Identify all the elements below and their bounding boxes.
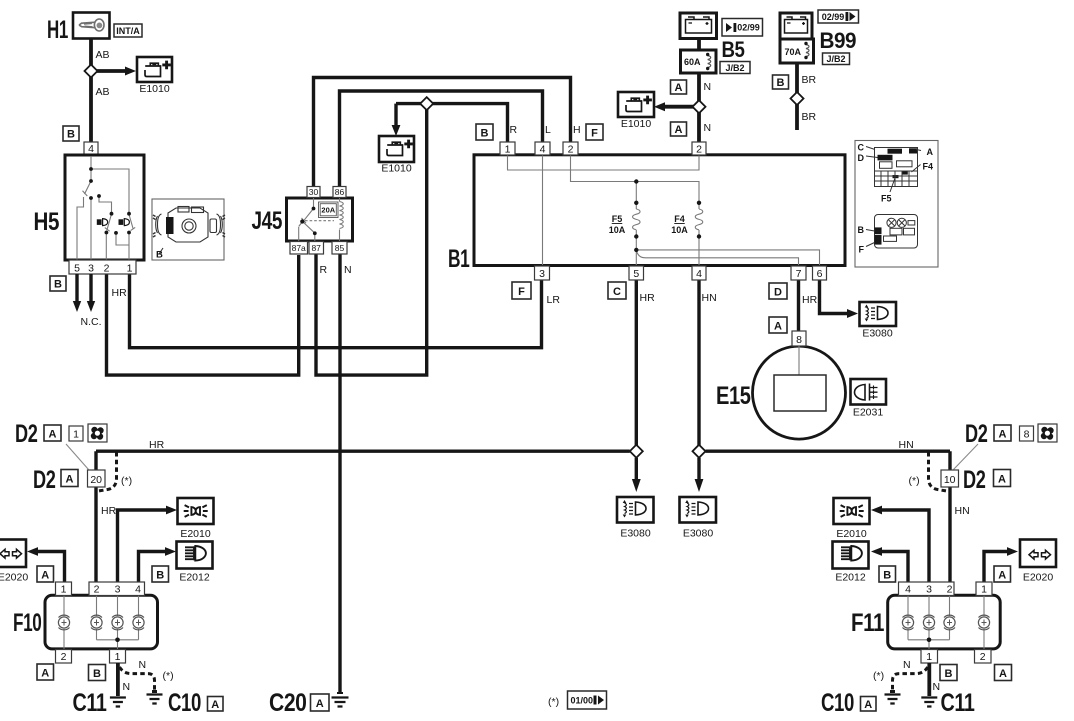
earth point E1010 box (center) xyxy=(379,136,414,162)
svg-text:INT/A: INT/A xyxy=(116,26,140,36)
svg-text:(*): (*) xyxy=(163,670,174,682)
connector label A xyxy=(671,122,687,136)
fog light switch E15 xyxy=(753,346,846,439)
svg-text:HR: HR xyxy=(112,287,128,299)
svg-text:87a: 87a xyxy=(292,243,306,253)
wire F11 pin3 arrow to E2010 xyxy=(881,510,929,582)
svg-text:D2: D2 xyxy=(965,420,988,448)
svg-text:B: B xyxy=(156,569,164,581)
wire J45 pin87 R to diamond node to B1 pin1 xyxy=(316,104,508,376)
wire J45 pin86 L to B1 pin4 xyxy=(340,91,543,187)
svg-text:HR: HR xyxy=(101,505,117,517)
connector label B xyxy=(152,566,169,582)
wire HN bus right xyxy=(706,450,951,453)
svg-text:E3080: E3080 xyxy=(683,528,714,540)
node diamond on AB wire xyxy=(85,65,98,78)
wire AB from H1 to H5 pin 4 xyxy=(89,36,93,143)
B5 fuse 60A xyxy=(681,50,717,73)
connector label F xyxy=(586,124,603,140)
B1 pin 1 xyxy=(500,142,515,155)
svg-text:E2020: E2020 xyxy=(0,572,28,584)
svg-text:20A: 20A xyxy=(321,206,335,215)
svg-text:N.C.: N.C. xyxy=(81,316,102,328)
svg-text:2: 2 xyxy=(61,651,67,663)
svg-text:BR: BR xyxy=(802,111,817,123)
wire F10 pin4 arrow to E2012 xyxy=(139,552,167,583)
svg-text:A: A xyxy=(675,124,683,136)
dashed optional wire (*) xyxy=(99,452,117,491)
svg-text:E2031: E2031 xyxy=(853,407,884,419)
svg-text:A: A xyxy=(211,699,219,711)
svg-text:E2020: E2020 xyxy=(1023,572,1054,584)
N.C. arrow pin 3 xyxy=(89,274,92,302)
svg-text:A: A xyxy=(49,428,57,440)
svg-text:3: 3 xyxy=(926,584,932,596)
F10 pin 2 bottom xyxy=(56,650,72,664)
fan symbol box xyxy=(88,424,107,442)
connector label B xyxy=(50,276,66,291)
connector label D xyxy=(769,283,787,299)
wire F11 pin4 arrow to E2012 xyxy=(881,552,908,583)
svg-text:B: B xyxy=(945,668,953,680)
svg-text:C11: C11 xyxy=(941,689,975,717)
svg-text:C: C xyxy=(858,143,865,153)
F11 pins 4 3 2 top xyxy=(899,582,955,596)
svg-text:B: B xyxy=(156,250,163,261)
connector label A xyxy=(208,697,224,712)
wire HR bus drop to F10 pin2 xyxy=(94,451,97,582)
svg-text:AB: AB xyxy=(96,49,110,61)
svg-text:A: A xyxy=(864,699,872,711)
svg-text:J/B2: J/B2 xyxy=(725,63,744,73)
fuse box B1 xyxy=(474,155,845,266)
front fog lamp icon E2010 right xyxy=(834,498,870,524)
svg-text:N: N xyxy=(933,681,941,693)
svg-text:(*): (*) xyxy=(548,696,559,708)
svg-text:F5: F5 xyxy=(881,194,892,204)
wire arrow to E1010 (right) xyxy=(664,105,699,109)
fan symbol box xyxy=(1038,424,1057,442)
svg-text:(*): (*) xyxy=(873,670,884,682)
svg-text:(*): (*) xyxy=(909,475,920,487)
wire B5 N to B1 pin2 right xyxy=(697,72,701,143)
svg-text:HN: HN xyxy=(899,439,914,451)
svg-text:N: N xyxy=(704,122,712,134)
svg-text:(*): (*) xyxy=(121,475,132,487)
svg-text:5: 5 xyxy=(633,268,639,280)
F10 internal lamps xyxy=(64,596,139,650)
H5 internal contacts xyxy=(77,156,135,260)
connector label A xyxy=(769,317,787,333)
svg-text:02/99: 02/99 xyxy=(737,23,760,33)
svg-text:J45: J45 xyxy=(252,207,283,235)
svg-text:1: 1 xyxy=(981,584,987,596)
battery B5 xyxy=(680,13,717,39)
connector label A xyxy=(994,566,1011,582)
svg-text:2: 2 xyxy=(947,584,953,596)
N.C. arrow pin 5 xyxy=(75,274,78,302)
H5 connector location inset xyxy=(152,199,224,260)
svg-text:A: A xyxy=(927,147,934,157)
svg-text:H1: H1 xyxy=(47,16,68,44)
svg-text:B: B xyxy=(481,127,489,139)
svg-text:F4: F4 xyxy=(674,214,685,224)
ground C10 left xyxy=(152,690,157,693)
junction diamond HR bus xyxy=(630,445,643,458)
svg-text:E2012: E2012 xyxy=(835,572,866,584)
B99 location label J/B2 xyxy=(823,53,850,65)
connector label C xyxy=(608,282,626,299)
svg-text:3: 3 xyxy=(539,268,545,280)
wire N to ground C11 xyxy=(116,663,120,696)
svg-text:7: 7 xyxy=(796,268,802,280)
svg-text:A: A xyxy=(998,473,1006,485)
svg-text:4: 4 xyxy=(88,143,94,155)
F10 pin 1 bottom xyxy=(110,650,126,664)
wire HR bus left xyxy=(96,450,630,453)
node diamond on BR wire xyxy=(791,92,804,105)
svg-text:C10: C10 xyxy=(821,689,854,717)
svg-text:D2: D2 xyxy=(15,420,38,448)
connector label A xyxy=(37,566,54,582)
wire B5 battery to fuse xyxy=(697,36,701,52)
svg-text:30: 30 xyxy=(309,187,319,197)
H1 key symbol box xyxy=(73,13,110,39)
svg-text:B1: B1 xyxy=(448,245,470,273)
svg-text:HR: HR xyxy=(640,292,656,304)
wire B1 pin4 HN down to E3080 right xyxy=(697,279,700,446)
svg-text:B: B xyxy=(858,225,865,235)
svg-text:E15: E15 xyxy=(716,382,751,410)
svg-text:B: B xyxy=(67,129,75,141)
svg-text:C11: C11 xyxy=(73,689,107,717)
connector label A xyxy=(61,470,78,487)
connector label A xyxy=(995,665,1012,681)
ground C10 right xyxy=(890,690,895,693)
wire HN bus drop to F11 pin2 xyxy=(948,451,951,582)
svg-text:F4: F4 xyxy=(923,162,934,172)
svg-text:E1010: E1010 xyxy=(139,83,170,95)
wire arrow down to E1010 (center) xyxy=(394,104,397,126)
svg-text:6: 6 xyxy=(817,268,823,280)
connector label B xyxy=(63,126,79,141)
svg-text:HR: HR xyxy=(802,294,818,306)
connector label B xyxy=(476,124,493,140)
svg-text:H5: H5 xyxy=(34,208,60,236)
svg-text:F: F xyxy=(518,286,525,298)
B1 pin 2 right xyxy=(692,142,706,155)
svg-text:E2010: E2010 xyxy=(180,528,211,540)
svg-text:5: 5 xyxy=(74,262,80,274)
svg-text:A: A xyxy=(675,82,683,94)
ground C11 right xyxy=(921,698,937,707)
B1 internal connections xyxy=(508,155,820,265)
pin 10 box xyxy=(941,470,959,487)
dashed optional wire to C10 right xyxy=(893,667,928,692)
lamp cluster F10 xyxy=(45,595,158,649)
connector label A xyxy=(994,425,1011,441)
svg-text:4: 4 xyxy=(905,584,911,596)
junction diamond HN bus xyxy=(693,445,706,458)
svg-text:B: B xyxy=(777,77,785,89)
svg-text:E3080: E3080 xyxy=(862,328,893,340)
svg-text:A: A xyxy=(41,569,49,581)
pin 4 of H5 xyxy=(84,142,98,155)
svg-text:D2: D2 xyxy=(33,466,56,494)
B99 fuse 70A xyxy=(780,39,814,63)
earth point E1010 box (left) xyxy=(137,57,172,82)
wire B1 pin7 HR to E15 pin8 xyxy=(797,279,800,332)
wire B1 pin5 HR down to E3080 left xyxy=(635,279,638,446)
headlamp unit E3080 box top right xyxy=(860,302,897,326)
turn signals icon E2020 right xyxy=(1020,540,1056,568)
svg-text:4: 4 xyxy=(135,584,141,596)
INT/A label box xyxy=(114,24,142,37)
B99 date label box xyxy=(818,10,859,23)
wire N to ground C11 right xyxy=(927,663,931,696)
battery B99 xyxy=(780,13,812,39)
svg-text:E3080: E3080 xyxy=(620,528,651,540)
B1 pin 6 xyxy=(813,266,827,280)
svg-text:2: 2 xyxy=(568,143,574,155)
low beam icon E2012 right xyxy=(833,542,869,569)
svg-text:A: A xyxy=(66,473,74,485)
svg-text:2: 2 xyxy=(104,262,110,274)
svg-text:85: 85 xyxy=(335,243,345,253)
ground C11 left xyxy=(110,698,126,707)
connector label A xyxy=(861,697,877,712)
svg-text:2: 2 xyxy=(980,651,986,663)
connector label B xyxy=(773,75,789,89)
svg-text:C: C xyxy=(613,286,621,298)
F10 pins 2 3 4 top xyxy=(89,582,145,596)
B1 pin 7 xyxy=(791,266,806,280)
svg-text:A: A xyxy=(999,668,1007,680)
B1 pin 3 xyxy=(535,266,550,280)
svg-text:70A: 70A xyxy=(785,47,802,57)
H5 bottom pin row 5 3 2 1 xyxy=(69,260,136,274)
light switch H5 box xyxy=(65,155,144,260)
svg-text:20: 20 xyxy=(90,474,102,486)
svg-text:B5: B5 xyxy=(722,37,745,62)
svg-text:1: 1 xyxy=(73,429,79,441)
svg-text:B: B xyxy=(93,668,101,680)
H5 lamp symbol 1 xyxy=(97,219,108,226)
svg-text:HR: HR xyxy=(149,439,165,451)
svg-text:3: 3 xyxy=(115,584,121,596)
svg-text:E1010: E1010 xyxy=(381,163,412,175)
svg-text:B: B xyxy=(54,279,62,291)
F11 pin 2 bottom xyxy=(975,650,992,664)
connector label B xyxy=(879,566,896,582)
wire J45 pin30 H to B1 pin2 xyxy=(314,78,571,188)
svg-text:D: D xyxy=(774,287,782,299)
svg-text:D2: D2 xyxy=(963,466,986,494)
leader line xyxy=(66,444,89,470)
svg-text:F10: F10 xyxy=(13,609,42,637)
svg-text:A: A xyxy=(774,321,782,333)
pin 20 box xyxy=(88,470,106,487)
svg-text:3: 3 xyxy=(88,262,94,274)
H5 lamp symbol 2 xyxy=(119,219,130,226)
svg-text:BR: BR xyxy=(802,74,817,86)
svg-text:E2010: E2010 xyxy=(836,528,867,540)
ground C20 xyxy=(337,692,343,694)
F11 internal lamps xyxy=(908,596,984,650)
wire B1 pin6 arrow to E3080 top xyxy=(820,279,849,314)
svg-text:10A: 10A xyxy=(609,225,626,235)
svg-text:HN: HN xyxy=(702,292,717,304)
svg-text:02/99: 02/99 xyxy=(822,12,845,22)
svg-text:A: A xyxy=(41,667,49,679)
dashed optional wire to C10 xyxy=(120,667,155,692)
wire H5 pin2 HR to J45 pin 87a xyxy=(107,255,299,375)
headlamp unit E3080 box bottom left xyxy=(617,497,654,523)
svg-text:F5: F5 xyxy=(612,214,623,224)
earth point E1010 box (center right) xyxy=(618,92,654,117)
svg-text:J/B2: J/B2 xyxy=(826,54,845,64)
B1 pin 2 xyxy=(563,142,578,155)
svg-text:10A: 10A xyxy=(671,225,688,235)
svg-text:F11: F11 xyxy=(851,609,884,637)
pin label 8 xyxy=(1020,426,1034,441)
connector label A xyxy=(37,664,54,680)
svg-text:1: 1 xyxy=(127,262,133,274)
pin label 1 xyxy=(69,426,83,441)
svg-text:86: 86 xyxy=(335,187,345,197)
svg-text:R: R xyxy=(510,124,518,136)
svg-text:N: N xyxy=(704,81,712,93)
svg-text:N: N xyxy=(139,659,147,671)
F10 pin 1 top xyxy=(56,582,72,596)
J45 coil and contacts xyxy=(299,198,344,241)
svg-text:B99: B99 xyxy=(820,28,857,53)
B5 location label J/B2 xyxy=(720,62,750,74)
svg-text:2: 2 xyxy=(94,584,100,596)
F11 pin 1 top xyxy=(976,582,992,596)
J45 pin 85 xyxy=(332,242,347,255)
svg-text:1: 1 xyxy=(505,143,511,155)
front fog lamp icon E2010 xyxy=(178,498,214,524)
connector label A xyxy=(994,470,1011,487)
svg-text:A: A xyxy=(998,569,1006,581)
node diamond on R wire xyxy=(420,97,433,110)
turn signals icon E2020 xyxy=(0,540,26,568)
connector label F xyxy=(512,282,531,299)
B5 date label box xyxy=(722,19,763,37)
svg-text:C20: C20 xyxy=(269,689,307,717)
svg-text:HN: HN xyxy=(955,505,970,517)
J45 fuse rating 20A box xyxy=(319,202,339,218)
connector label B xyxy=(89,665,106,681)
svg-text:C10: C10 xyxy=(168,689,201,717)
svg-text:N: N xyxy=(903,659,911,671)
F11 pin 1 bottom xyxy=(921,650,938,664)
wire J45 pin85 N to C20 ground xyxy=(338,253,341,694)
svg-text:E2012: E2012 xyxy=(179,572,210,584)
wire F11 pin1 arrow to E2020 xyxy=(984,552,1008,583)
svg-text:LR: LR xyxy=(547,294,561,306)
wire F10 pin1 arrow to E2020 xyxy=(37,552,65,583)
B1 pin 5 xyxy=(629,266,644,280)
connector label A xyxy=(44,425,61,441)
connector label B xyxy=(940,665,957,681)
dashed optional wire (*) xyxy=(929,452,947,491)
E15 internal lead xyxy=(798,346,800,376)
leader line xyxy=(954,444,979,470)
J45 pin 86 xyxy=(333,187,346,198)
J45 pin 87a xyxy=(290,242,308,255)
node diamond on N wire xyxy=(693,100,706,113)
svg-text:1: 1 xyxy=(115,651,121,663)
wire F10 pin3 arrow to E2010 xyxy=(118,510,168,582)
svg-text:8: 8 xyxy=(1024,429,1030,441)
B1 pin 4 xyxy=(535,142,550,155)
svg-text:D: D xyxy=(858,153,865,163)
E15 inner block xyxy=(774,375,826,411)
svg-text:4: 4 xyxy=(696,268,702,280)
J45 pin 87 xyxy=(309,242,324,255)
connector label A xyxy=(671,80,687,94)
svg-text:1: 1 xyxy=(61,584,67,596)
svg-text:8: 8 xyxy=(796,334,802,346)
wire B99 BR stub xyxy=(795,62,799,130)
B1 pin 4 bottom xyxy=(692,266,706,280)
rear fog lamp icon E2031 xyxy=(851,379,887,405)
svg-text:L: L xyxy=(545,124,551,136)
svg-text:60A: 60A xyxy=(684,57,701,67)
svg-text:4: 4 xyxy=(540,143,546,155)
svg-text:1: 1 xyxy=(926,651,932,663)
J45 pin 30 xyxy=(307,187,320,198)
svg-text:E1010: E1010 xyxy=(621,118,652,130)
E15 pin 8 xyxy=(792,331,806,346)
low beam icon E2012 xyxy=(177,542,213,569)
svg-text:01/00: 01/00 xyxy=(571,696,594,706)
connector label A xyxy=(311,694,330,711)
svg-text:F: F xyxy=(591,127,598,139)
lamp cluster F11 xyxy=(888,595,1001,649)
svg-text:87: 87 xyxy=(311,243,321,253)
svg-text:H: H xyxy=(573,124,581,136)
wire H5 pin1 to B1 pin3 LR xyxy=(130,273,542,348)
svg-text:N: N xyxy=(344,264,352,276)
svg-text:10: 10 xyxy=(944,474,956,486)
svg-text:F: F xyxy=(859,245,865,255)
headlamp unit E3080 box bottom right xyxy=(680,497,717,523)
svg-text:R: R xyxy=(320,264,328,276)
svg-text:A: A xyxy=(316,698,324,710)
svg-text:A: A xyxy=(999,428,1007,440)
svg-text:AB: AB xyxy=(96,86,110,98)
svg-text:2: 2 xyxy=(696,143,702,155)
svg-text:B: B xyxy=(883,569,891,581)
fuse box location inset xyxy=(855,141,938,268)
wire arrow to E1010 (left) xyxy=(91,69,126,73)
svg-text:N: N xyxy=(123,681,131,693)
